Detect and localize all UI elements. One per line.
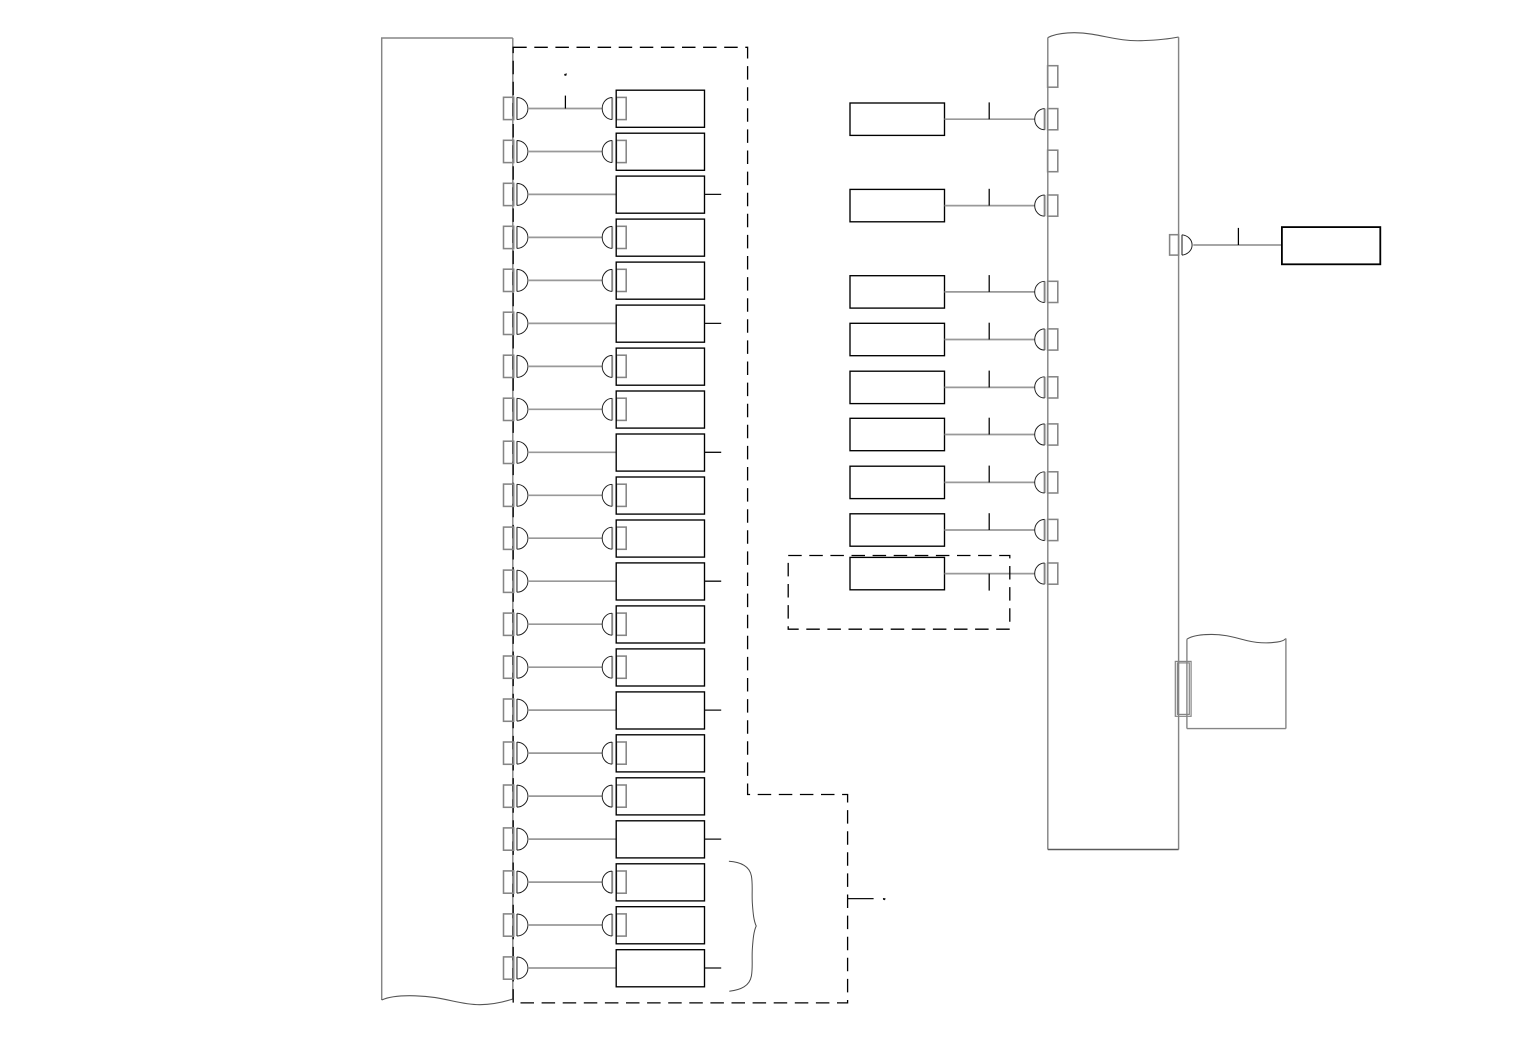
grouping brace G1	[729, 861, 756, 991]
wire row 6 (panel pin to module 6)	[528, 322, 616, 324]
pin S5 on module 5 (plug contact)	[602, 269, 626, 291]
pin Q8 on right panel (socket contact)	[1035, 519, 1058, 540]
wire tag tick TE1	[1237, 228, 1239, 245]
wire row 4 (panel pin to connector 4)	[528, 236, 602, 238]
wire tag tick TR5	[988, 371, 990, 388]
wire row 2 (panel pin to connector 2)	[528, 151, 602, 153]
pin P21 on left panel (socket contact)	[504, 957, 528, 979]
relay module rectangle R5	[850, 371, 945, 403]
pin Q9 on right panel (socket contact)	[1035, 563, 1058, 584]
pin P15 on left panel (socket contact)	[504, 699, 528, 721]
pin P14 on left panel (socket contact)	[504, 656, 528, 678]
stub lead from module K9	[705, 451, 722, 453]
wire row 19 (panel pin to connector 19)	[528, 881, 602, 883]
left device panel W1 (outline with break wave at bottom)	[381, 38, 513, 1005]
wire row 9 (panel pin to module 9)	[528, 451, 616, 453]
wire row 12 (panel pin to module 12)	[528, 580, 616, 582]
dashed harness boundary box B1 (stepped outline)	[513, 47, 847, 1003]
wire row 14 (panel pin to connector 14)	[528, 666, 602, 668]
module rectangle K18	[616, 821, 704, 858]
pin Q4 on right panel (socket contact)	[1035, 329, 1058, 350]
pin P1 on left panel (socket contact)	[504, 97, 528, 119]
wire right row 2 (module R2 to panel pin)	[945, 205, 1035, 207]
pin S8 on module 8 (plug contact)	[602, 398, 626, 420]
module rectangle K4	[616, 219, 704, 256]
wire tag tick TR1	[988, 102, 990, 119]
wire external (panel pin Q10 to module R10)	[1193, 244, 1282, 246]
module rectangle K1	[616, 90, 704, 127]
wire right row 3 (module R3 to panel pin)	[945, 291, 1035, 293]
wire row 15 (panel pin to module 15)	[528, 709, 616, 711]
module rectangle K6	[616, 305, 704, 342]
pin Q5 on right panel (socket contact)	[1035, 377, 1058, 398]
relay module rectangle R4	[850, 323, 945, 355]
pin S10 on module 10 (plug contact)	[602, 484, 626, 506]
reference dot mark M1	[564, 73, 567, 76]
pin Q1 on right panel (socket contact)	[1035, 109, 1058, 130]
module rectangle K10	[616, 477, 704, 514]
wire row 1 (panel pin to connector 1)	[528, 108, 602, 110]
module rectangle K16	[616, 735, 704, 772]
module rectangle K20	[616, 907, 704, 944]
module rectangle K5	[616, 262, 704, 299]
pin P17 on left panel (socket contact)	[504, 785, 528, 807]
pin Q6 on right panel (socket contact)	[1035, 424, 1058, 445]
stub lead from module K18	[705, 838, 722, 840]
relay module rectangle R7	[850, 466, 945, 498]
pin P6 on left panel (socket contact)	[504, 312, 528, 334]
wire row 18 (panel pin to module 18)	[528, 838, 616, 840]
module rectangle K12	[616, 563, 704, 600]
feed-through terminal F1 (double rectangle) on right panel	[1175, 661, 1191, 716]
wire tag tick TR6	[988, 418, 990, 435]
wire row 13 (panel pin to connector 13)	[528, 623, 602, 625]
relay module rectangle R2	[850, 189, 945, 221]
module rectangle K15	[616, 692, 704, 729]
pin S16 on module 16 (plug contact)	[602, 742, 626, 764]
stub lead from module K3	[705, 193, 722, 195]
wire right row 1 (module R1 to panel pin)	[945, 118, 1035, 120]
wire tag tick T1 on row 1	[564, 96, 566, 109]
relay module rectangle R9	[850, 557, 945, 589]
module rectangle K19	[616, 864, 704, 901]
pin S13 on module 13 (plug contact)	[602, 613, 626, 635]
pin P3 on left panel (socket contact)	[504, 183, 528, 205]
dashed option boundary box B2	[788, 556, 1010, 630]
relay module rectangle R8	[850, 514, 945, 546]
pin P16 on left panel (socket contact)	[504, 742, 528, 764]
module rectangle K2	[616, 133, 704, 170]
pin P4 on left panel (socket contact)	[504, 226, 528, 248]
module rectangle K17	[616, 778, 704, 815]
module rectangle K8	[616, 391, 704, 428]
auxiliary device box W3 (break wave at top)	[1187, 634, 1286, 728]
wire tag tick TR4	[988, 323, 990, 340]
pin P2 on left panel (socket contact)	[504, 140, 528, 162]
wire tag tick TR3	[988, 275, 990, 292]
pin S19 on module 19 (plug contact)	[602, 871, 626, 893]
relay module rectangle R1	[850, 103, 945, 135]
pin P8 on left panel (socket contact)	[504, 398, 528, 420]
stub lead from module K15	[705, 709, 722, 711]
wire row 5 (panel pin to connector 5)	[528, 279, 602, 281]
pin P5 on left panel (socket contact)	[504, 269, 528, 291]
stub lead from module K21	[705, 967, 722, 969]
module rectangle K7	[616, 348, 704, 385]
pin S1 on module 1 (plug contact)	[602, 97, 626, 119]
stub lead from module K6	[705, 322, 722, 324]
module rectangle K3	[616, 176, 704, 213]
pin S4 on module 4 (plug contact)	[602, 226, 626, 248]
pin P12 on left panel (socket contact)	[504, 570, 528, 592]
wire tag tick TR2	[988, 189, 990, 206]
wire row 7 (panel pin to connector 7)	[528, 365, 602, 367]
stub lead from module K12	[705, 580, 722, 582]
unused pin U1 on right panel	[1048, 66, 1058, 88]
pin Q7 on right panel (socket contact)	[1035, 472, 1058, 493]
pin Q2 on right panel (socket contact)	[1035, 195, 1058, 216]
wire right row 9 (module R9 to panel pin)	[945, 573, 1035, 575]
pin Q3 on right panel (socket contact)	[1035, 281, 1058, 302]
pin P7 on left panel (socket contact)	[504, 355, 528, 377]
pin S11 on module 11 (plug contact)	[602, 527, 626, 549]
relay module rectangle R3	[850, 276, 945, 308]
external module rectangle R10	[1282, 227, 1380, 264]
stub lead at harness boundary	[848, 898, 874, 900]
pin S17 on module 17 (plug contact)	[602, 785, 626, 807]
wire row 10 (panel pin to connector 10)	[528, 494, 602, 496]
wire tag tick TR9	[988, 574, 990, 591]
pin P10 on left panel (socket contact)	[504, 484, 528, 506]
module rectangle K9	[616, 434, 704, 471]
relay module rectangle R6	[850, 418, 945, 450]
wire right row 6 (module R6 to panel pin)	[945, 434, 1035, 436]
pin P19 on left panel (socket contact)	[504, 871, 528, 893]
module rectangle K14	[616, 649, 704, 686]
reference dot mark M2	[883, 898, 886, 900]
module rectangle K13	[616, 606, 704, 643]
wire row 20 (panel pin to connector 20)	[528, 924, 602, 926]
pin P20 on left panel (socket contact)	[504, 914, 528, 936]
pin P18 on left panel (socket contact)	[504, 828, 528, 850]
wire right row 8 (module R8 to panel pin)	[945, 529, 1035, 531]
pin P9 on left panel (socket contact)	[504, 441, 528, 463]
wire row 11 (panel pin to connector 11)	[528, 537, 602, 539]
wire row 21 (panel pin to module 21)	[528, 967, 616, 969]
module rectangle K21	[616, 950, 704, 987]
pin P13 on left panel (socket contact)	[504, 613, 528, 635]
right device panel W2 (outline with break wave at top)	[1048, 33, 1179, 850]
pin S2 on module 2 (plug contact)	[602, 140, 626, 162]
wire right row 4 (module R4 to panel pin)	[945, 339, 1035, 341]
unused pin U2 on right panel	[1048, 150, 1058, 172]
wire row 16 (panel pin to connector 16)	[528, 752, 602, 754]
wire right row 7 (module R7 to panel pin)	[945, 481, 1035, 483]
wire right row 5 (module R5 to panel pin)	[945, 386, 1035, 388]
wire row 17 (panel pin to connector 17)	[528, 795, 602, 797]
pin Q10 on right panel right edge (plug contact)	[1170, 235, 1192, 255]
pin S7 on module 7 (plug contact)	[602, 355, 626, 377]
pin S20 on module 20 (plug contact)	[602, 914, 626, 936]
wire row 3 (panel pin to module 3)	[528, 193, 616, 195]
wire row 8 (panel pin to connector 8)	[528, 408, 602, 410]
pin S14 on module 14 (plug contact)	[602, 656, 626, 678]
wire tag tick TR8	[988, 513, 990, 530]
wire tag tick TR7	[988, 466, 990, 483]
pin P11 on left panel (socket contact)	[504, 527, 528, 549]
module rectangle K11	[616, 520, 704, 557]
